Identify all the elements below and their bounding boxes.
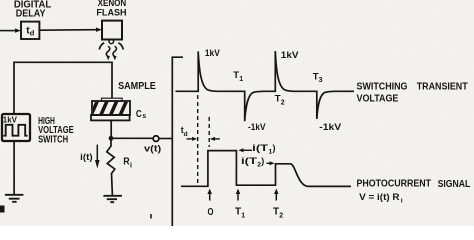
svg-text:SWITCH: SWITCH bbox=[38, 135, 68, 146]
sample body (hatched) capacitor C_s bbox=[92, 101, 130, 115]
high voltage switch box bbox=[2, 114, 30, 141]
light ray arc left bbox=[99, 43, 104, 50]
ground (resistor) bbox=[103, 196, 122, 202]
arrowhead into flash box bbox=[96, 28, 102, 32]
svg-text:v(t): v(t) bbox=[144, 143, 161, 153]
wire into digital delay bbox=[0, 30, 15, 32]
svg-text:SAMPLE: SAMPLE bbox=[118, 81, 156, 92]
wire sample bottom to junction bbox=[110, 120, 112, 138]
sample top electrode bbox=[102, 98, 123, 101]
wire junction to output terminal bbox=[111, 137, 153, 139]
ground (HV switch) bbox=[5, 195, 24, 202]
svg-text:d: d bbox=[184, 131, 188, 138]
light squiggle arrow right bbox=[113, 46, 117, 56]
svg-text:i: i bbox=[401, 198, 403, 205]
bracket to waveforms bbox=[172, 57, 183, 226]
scan artifact speck bbox=[150, 214, 152, 219]
svg-text:-1kV: -1kV bbox=[248, 121, 266, 132]
time axis arrow T1 bbox=[237, 194, 239, 201]
svg-text:i(T: i(T bbox=[252, 143, 269, 153]
svg-text:VOLTAGE: VOLTAGE bbox=[357, 93, 399, 104]
svg-text:2: 2 bbox=[281, 99, 285, 106]
t_d dimension arrow right bbox=[215, 138, 220, 140]
svg-text:1: 1 bbox=[241, 212, 245, 219]
svg-text:1kV: 1kV bbox=[3, 114, 17, 124]
svg-text:T: T bbox=[235, 207, 241, 218]
svg-text:): ) bbox=[261, 156, 264, 166]
svg-text:FLASH: FLASH bbox=[96, 8, 127, 18]
digital delay box U1 (t_d) bbox=[21, 22, 39, 39]
flash lamp circle bbox=[109, 39, 114, 44]
sample bottom electrode bbox=[91, 115, 130, 120]
scan artifact left edge bbox=[0, 206, 5, 213]
svg-text:TRANSIENT: TRANSIENT bbox=[417, 82, 468, 93]
t_d dimension arrow left bbox=[187, 138, 193, 140]
svg-text:V = i(t) R: V = i(t) R bbox=[359, 191, 400, 202]
switching transient waveform bbox=[176, 51, 355, 121]
dashed line at photocurrent start bbox=[208, 117, 210, 147]
resistor R_i bbox=[107, 141, 115, 196]
light squiggle arrow left bbox=[106, 46, 110, 56]
arrowhead into t_d box bbox=[15, 28, 21, 32]
svg-text:1kV: 1kV bbox=[281, 50, 299, 61]
square wave symbol bbox=[3, 125, 27, 136]
wire HV switch to ground bbox=[13, 141, 15, 195]
time axis arrow O bbox=[209, 194, 211, 201]
svg-text:DELAY: DELAY bbox=[16, 9, 46, 20]
svg-text:2: 2 bbox=[279, 212, 283, 219]
svg-text:i(T: i(T bbox=[241, 156, 258, 166]
svg-text:1kV: 1kV bbox=[205, 48, 220, 59]
label i(T1) with arrow bbox=[244, 149, 253, 151]
svg-text:s: s bbox=[142, 113, 146, 120]
svg-text:SIGNAL: SIGNAL bbox=[438, 179, 471, 190]
svg-text:i: i bbox=[130, 161, 132, 170]
svg-text:i(t): i(t) bbox=[80, 152, 92, 162]
output terminal v(t) open circle bbox=[153, 136, 159, 142]
wire loop: HV switch top, up, right, down to sample bbox=[14, 62, 112, 113]
svg-text:PHOTOCURRENT: PHOTOCURRENT bbox=[357, 179, 432, 190]
svg-text:T: T bbox=[273, 207, 279, 218]
photocurrent waveform bbox=[181, 151, 351, 187]
svg-text:SWITCHING: SWITCHING bbox=[357, 82, 408, 93]
svg-text:O: O bbox=[208, 207, 214, 218]
time axis arrow T2 bbox=[275, 194, 277, 201]
svg-text:): ) bbox=[273, 143, 276, 153]
light ray arc right bbox=[118, 43, 123, 50]
svg-text:R: R bbox=[123, 156, 130, 167]
current arrow i(t) bbox=[96, 145, 98, 161]
dashed line at flash trigger bbox=[197, 95, 199, 185]
svg-text:C: C bbox=[136, 109, 142, 120]
wire t_d to xenon flash bbox=[39, 29, 96, 32]
junction node bbox=[109, 136, 114, 141]
xenon flash box bbox=[102, 21, 122, 40]
wire terminal to bracket bbox=[159, 138, 172, 140]
svg-text:3: 3 bbox=[319, 77, 323, 84]
svg-text:1: 1 bbox=[239, 76, 243, 83]
svg-text:-1kV: -1kV bbox=[319, 121, 342, 132]
svg-text:d: d bbox=[30, 29, 35, 38]
